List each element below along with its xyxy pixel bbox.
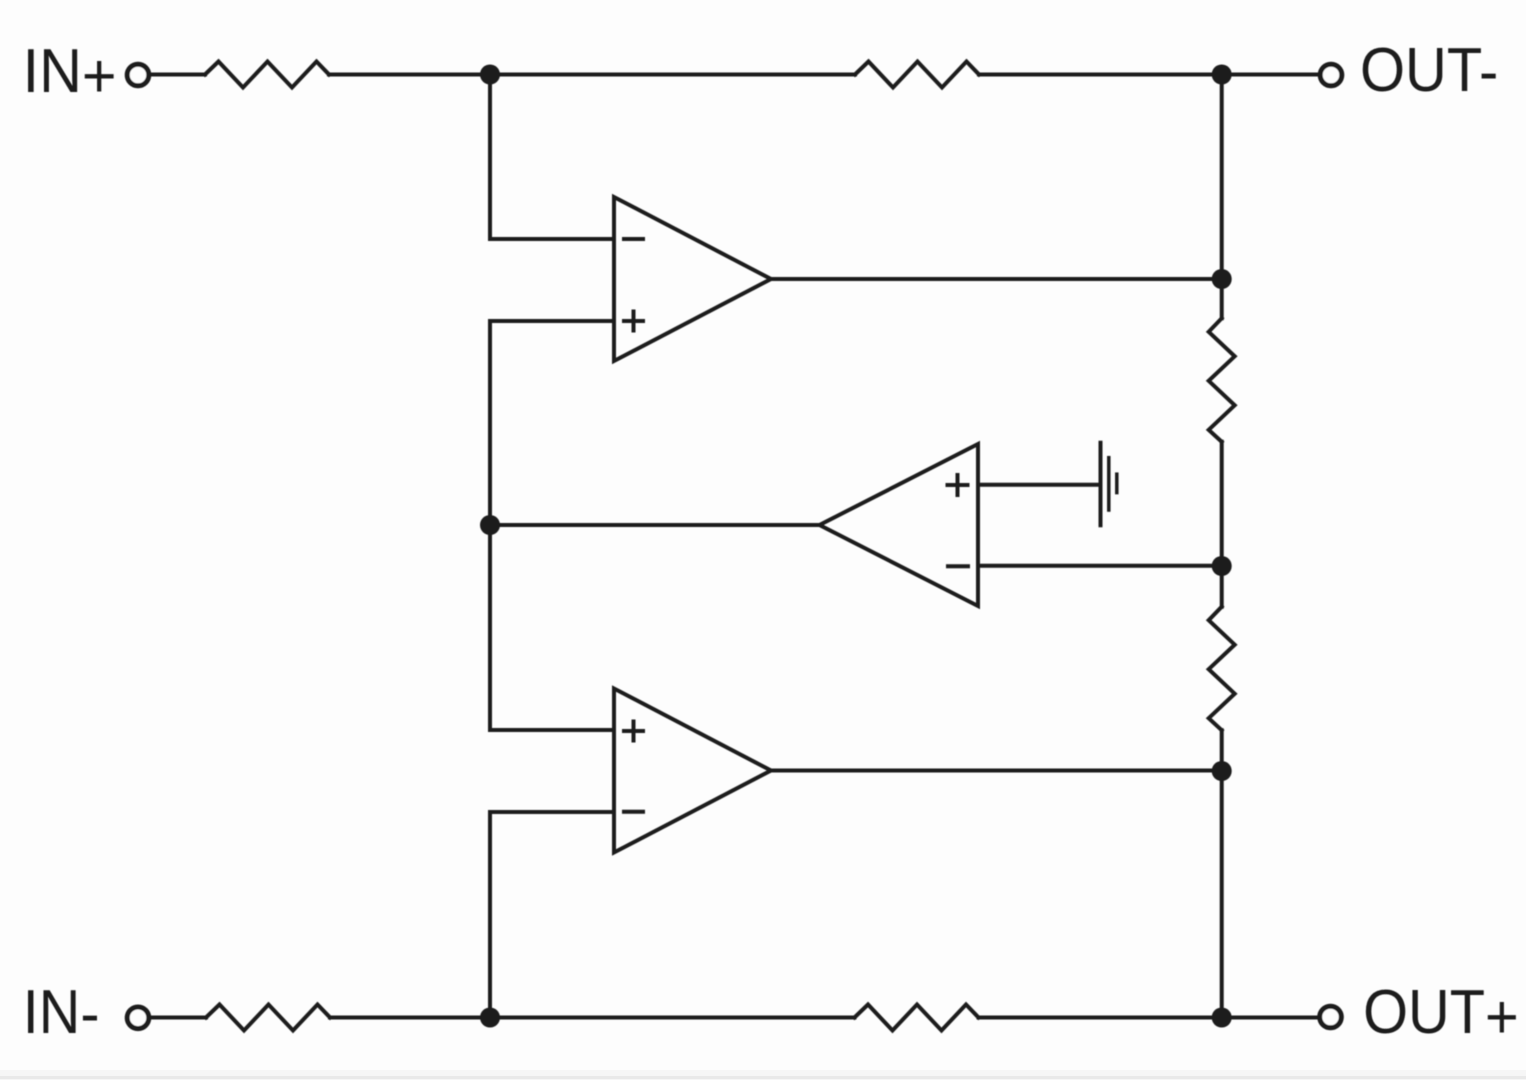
- terminal IN-: [127, 1007, 149, 1029]
- wire IN+ to R1: [152, 73, 206, 77]
- op-amp U1: [614, 197, 771, 361]
- resistor R2: [855, 62, 979, 88]
- wire node B to OUT- terminal: [1222, 73, 1318, 77]
- U2 plus sign: [948, 475, 968, 495]
- op-amp U3: [614, 689, 771, 853]
- wire R5 to node G: [330, 1016, 490, 1020]
- wire R3 to R4: [1220, 442, 1224, 607]
- wire R1 to node A: [329, 73, 490, 77]
- wire R4 to node F: [1220, 730, 1224, 1017]
- wire U2 output to node C: [490, 523, 820, 527]
- terminal OUT+: [1320, 1006, 1342, 1028]
- wire node A down to U1 inverting input: [490, 75, 614, 240]
- terminal OUT-: [1320, 64, 1342, 86]
- resistor R4: [1209, 607, 1235, 731]
- resistor R6: [855, 1005, 979, 1031]
- node E: [1212, 556, 1232, 576]
- bottom bar: [0, 1070, 1526, 1080]
- node C: [480, 515, 500, 535]
- U2 minus sign: [948, 564, 968, 568]
- resistor R3: [1209, 318, 1235, 442]
- terminal IN+: [127, 64, 149, 86]
- wire U1 noninverting input from left rail: [490, 321, 614, 730]
- node G: [480, 1008, 500, 1028]
- wire U2 inverting input to node E: [978, 564, 1222, 568]
- wire IN- to R5: [152, 1016, 207, 1020]
- U1 plus sign: [624, 312, 643, 331]
- wire U1 output to node D: [771, 277, 1222, 281]
- node B: [1212, 65, 1232, 85]
- op-amp U2: [820, 444, 979, 606]
- node F: [1212, 761, 1232, 781]
- resistor R1: [205, 62, 329, 88]
- wire node H to OUT+ terminal: [1222, 1016, 1317, 1020]
- svg-text:OUT-: OUT-: [1360, 36, 1498, 107]
- node A: [480, 65, 500, 85]
- wire R2 to node B: [979, 73, 1222, 77]
- wire U3 output to node F: [771, 769, 1222, 773]
- resistor R5: [206, 1005, 330, 1031]
- node H: [1212, 1008, 1232, 1028]
- U3 plus sign: [624, 722, 643, 741]
- svg-text:IN-: IN-: [23, 978, 100, 1049]
- wire node A to R2: [490, 73, 855, 77]
- wire node G to R6: [490, 1016, 855, 1020]
- U3 minus sign: [624, 810, 643, 814]
- svg-text:OUT+: OUT+: [1363, 978, 1519, 1052]
- wire U2 noninverting input to ground: [978, 483, 1100, 487]
- wire right rail top: [1220, 75, 1224, 319]
- U1 minus sign: [624, 237, 643, 241]
- wire U3 inverting input to bottom rail: [490, 812, 614, 1018]
- wire R6 to node H: [979, 1016, 1222, 1020]
- ground: [1101, 443, 1117, 525]
- node D: [1212, 269, 1232, 289]
- svg-text:IN+: IN+: [23, 37, 117, 111]
